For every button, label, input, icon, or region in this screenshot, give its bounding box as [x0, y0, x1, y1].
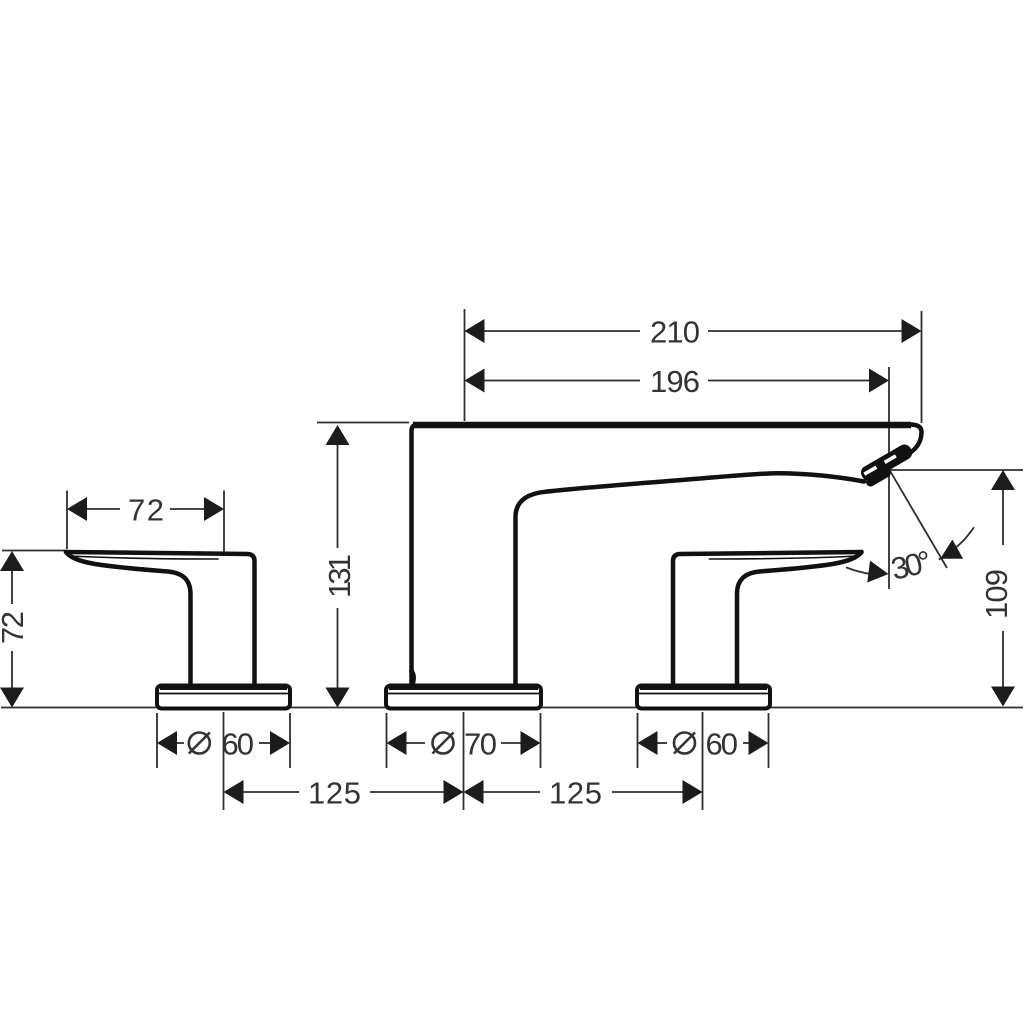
- svg-text:131: 131: [322, 554, 357, 598]
- svg-text:70: 70: [464, 727, 497, 762]
- svg-text:210: 210: [650, 315, 700, 350]
- svg-text:60: 60: [222, 727, 255, 762]
- svg-text:109: 109: [979, 569, 1014, 619]
- svg-text:72: 72: [128, 493, 164, 528]
- svg-text:60: 60: [706, 727, 739, 762]
- svg-text:125: 125: [308, 776, 361, 811]
- svg-text:196: 196: [650, 364, 700, 399]
- svg-text:125: 125: [549, 776, 602, 811]
- svg-text:72: 72: [0, 611, 30, 644]
